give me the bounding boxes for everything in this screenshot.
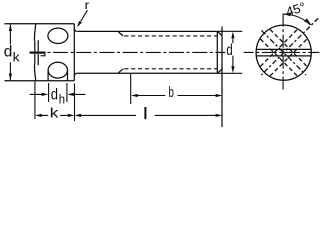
- svg-text:r: r: [85, 0, 90, 12]
- svg-text:d: d: [226, 42, 232, 59]
- svg-text:h: h: [59, 91, 65, 106]
- svg-text:d: d: [4, 43, 13, 60]
- svg-text:k: k: [50, 105, 59, 120]
- svg-text:k: k: [13, 50, 21, 65]
- svg-text:b: b: [169, 84, 174, 101]
- svg-text:d: d: [51, 86, 58, 103]
